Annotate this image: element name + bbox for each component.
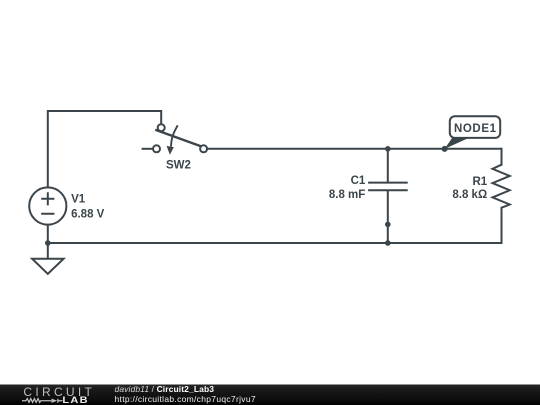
node junction at V1 bottom: [45, 240, 51, 246]
switch SW2: [142, 124, 208, 171]
svg-text:V1: V1: [71, 194, 86, 206]
svg-text:C1: C1: [351, 175, 366, 187]
wire from switch right terminal to top-right corner: [207, 148, 502, 150]
wire V1 bottom lead to ground: [47, 225, 49, 259]
svg-text:http://circuitlab.com/chp7uqc7: http://circuitlab.com/chp7uqc7rjvu7: [115, 394, 256, 404]
capacitor C1: [329, 149, 408, 243]
resistor R1: [452, 165, 509, 208]
CircuitLab logo: [22, 385, 95, 405]
footer text: [115, 384, 256, 404]
svg-text:SW2: SW2: [166, 159, 191, 171]
svg-text:R1: R1: [472, 176, 487, 188]
ground: [32, 259, 64, 274]
svg-text:davidb11 / Circuit2_Lab3: davidb11 / Circuit2_Lab3: [115, 384, 215, 394]
wire top-left from V1 to switch: [48, 111, 161, 188]
svg-text:8.8 mF: 8.8 mF: [329, 189, 365, 201]
node junction NODE1: [442, 146, 448, 152]
footer bar: [0, 385, 540, 405]
node junction C1 top: [385, 146, 391, 152]
voltage source V1: [29, 187, 104, 224]
wire right side bottom (R1 to bottom wire): [501, 208, 503, 243]
wire right side top (corner to R1): [501, 149, 503, 165]
svg-text:6.88 V: 6.88 V: [71, 209, 105, 221]
node junction C1 bottom terminal: [385, 222, 391, 228]
wire bottom from right corner to V1: [48, 242, 502, 244]
node NODE1 flag: [445, 116, 501, 149]
svg-text:LAB: LAB: [62, 396, 88, 405]
node junction C1 at bottom wire: [385, 240, 391, 246]
svg-text:NODE1: NODE1: [454, 123, 497, 135]
svg-text:8.8 kΩ: 8.8 kΩ: [452, 189, 487, 201]
